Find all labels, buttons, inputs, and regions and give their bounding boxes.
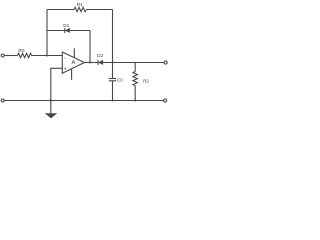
wire D1 branch left segment [47,30,65,32]
resistor R1 [74,7,87,11]
node ground rail / R2 [134,100,136,102]
svg-text:+: + [64,66,67,72]
wire capacitor top lead [112,63,114,79]
wire D1 riser to op-amp output [89,31,91,63]
wire top feedback left segment [47,9,74,11]
ground terminal left [1,99,4,102]
capacitor C0 [109,78,123,83]
svg-text:R2: R2 [143,79,149,84]
resistor R2 [133,72,149,86]
svg-text:C0: C0 [117,78,123,83]
output terminal bottom [164,99,167,102]
wire D2 to output terminal [103,62,164,64]
wire input to R0 [4,55,17,57]
node ground rail / non-inverting [50,100,52,102]
output terminal top [164,61,167,64]
node op-amp output / D1 feedback [89,62,91,64]
svg-text:D1: D1 [63,23,69,29]
wire D1 branch right segment [70,30,90,32]
resistor R0 [18,53,32,57]
wire R0 to op-amp inverting input [32,55,63,57]
svg-text:A: A [72,60,76,66]
node ground rail / capacitor [112,100,114,102]
diode D1 [63,23,70,33]
wire R2 bottom lead [134,86,136,101]
wire op-amp output segment [84,62,98,64]
input terminal Vin [1,54,4,57]
node output top [112,62,114,64]
svg-text:-: - [64,56,66,62]
wire R2 top lead [134,63,136,72]
wire vertical feedback riser [46,10,48,56]
op-amp U1 (A) [62,48,84,80]
node at inverting input junction [46,55,48,57]
wire capacitor bottom lead [112,81,114,101]
wire feedback right riser to output node [112,10,114,63]
ground rail wire [4,100,164,102]
svg-text:D2: D2 [97,53,103,59]
ground [45,101,57,119]
diode D2 [97,53,103,65]
svg-text:R0: R0 [18,48,24,54]
op-amp negative supply pin [71,69,73,80]
op-amp positive supply pin [73,48,75,57]
svg-text:R1: R1 [77,2,83,8]
wire top feedback right segment [87,9,113,11]
wire non-inverting input [51,68,63,100]
